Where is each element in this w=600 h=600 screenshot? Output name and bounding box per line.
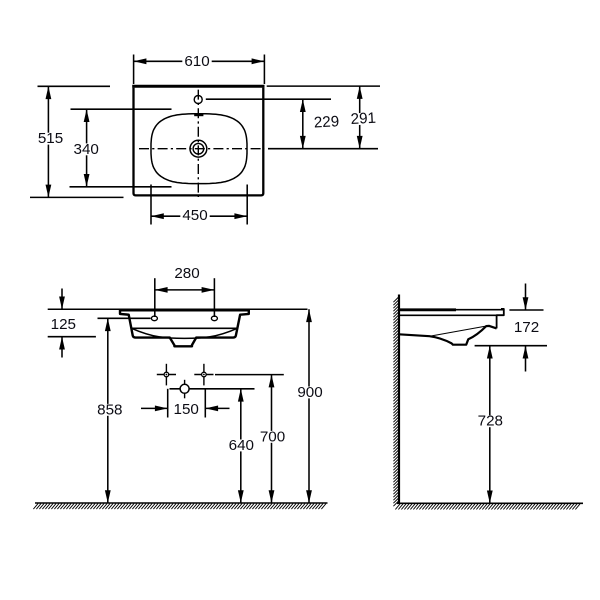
- right tap hole cross marker: [194, 364, 213, 386]
- svg-text:229: 229: [313, 113, 339, 131]
- 450 dimension line: [151, 215, 247, 217]
- 450 left extension line: [150, 185, 152, 225]
- 340 top extension line: [71, 108, 172, 110]
- 340 dimension line: [86, 109, 88, 187]
- 125 upper outside arrow line: [61, 289, 63, 310]
- 229/291 bottom extension line (drain level): [268, 148, 378, 150]
- 610 dimension line: [134, 60, 265, 62]
- side view deck top thick segment: [400, 308, 456, 311]
- front view top reference line: [48, 308, 308, 310]
- label 640: [227, 437, 256, 454]
- svg-text:640: 640: [229, 437, 254, 454]
- svg-text:125: 125: [51, 316, 76, 333]
- 172 top extension line: [509, 309, 543, 311]
- 172 bottom extension line: [475, 345, 547, 347]
- svg-text:291: 291: [350, 110, 376, 128]
- side view bowl underside outline: [399, 326, 497, 345]
- 515 bottom extension line: [30, 196, 124, 198]
- 640 dimension line: [240, 389, 242, 503]
- front view inner bowl bottom curve: [132, 328, 238, 338]
- svg-text:900: 900: [297, 384, 322, 401]
- 229 dimension line: [302, 99, 304, 149]
- 150 left extension line: [167, 389, 169, 418]
- label 900: [295, 384, 324, 401]
- svg-text:700: 700: [260, 428, 285, 445]
- 728 dimension line: [489, 346, 491, 504]
- 640 top extension line: [170, 388, 255, 390]
- 291 dimension line: [359, 86, 361, 149]
- top view basin inner bowl outline: [151, 114, 247, 184]
- 150 left outside arrow line: [141, 407, 168, 409]
- label 700: [258, 428, 287, 445]
- side view ground hatching: [395, 504, 580, 510]
- right fixing hole (front view): [211, 316, 217, 321]
- front view ground line: [35, 502, 328, 504]
- left fixing hole (front view): [151, 316, 157, 321]
- front view inner bowl top line: [132, 327, 238, 329]
- overflow slot mark: [194, 113, 203, 116]
- front view rim top thick edge: [119, 309, 250, 312]
- 125 lower outside arrow line: [61, 337, 63, 358]
- side view deck bottom line: [400, 314, 497, 316]
- svg-text:450: 450: [182, 207, 207, 224]
- front view sink body outline: [120, 309, 249, 346]
- 900 dimension line: [308, 309, 310, 503]
- svg-text:150: 150: [174, 401, 199, 418]
- svg-text:515: 515: [38, 130, 63, 147]
- horizontal centerline (top view): [139, 148, 265, 150]
- 172 lower outside arrow line: [525, 346, 527, 372]
- 229 top extension line (faucet level): [206, 98, 331, 100]
- 700 top extension line: [215, 374, 284, 376]
- side view inner rim edge line: [431, 326, 487, 336]
- svg-text:728: 728: [478, 413, 503, 430]
- top view thick top edge: [132, 85, 264, 88]
- svg-text:280: 280: [174, 265, 199, 282]
- side view ground line: [397, 502, 583, 504]
- 280 dimension line: [155, 289, 215, 291]
- side view front lip outline: [497, 309, 504, 329]
- front view ground hatching: [33, 504, 326, 510]
- left tap hole cross marker: [157, 364, 176, 386]
- center hole marker (front view): [180, 380, 189, 399]
- vertical centerline (top view): [197, 90, 199, 197]
- 515 top extension line: [38, 85, 111, 87]
- label 450: [180, 207, 209, 224]
- 291 top extension line (rim level): [267, 85, 380, 87]
- top view basin outer rectangle: [134, 88, 264, 196]
- 150 right extension line: [204, 389, 206, 418]
- svg-text:172: 172: [514, 319, 539, 336]
- label 728: [476, 413, 505, 430]
- svg-text:340: 340: [74, 141, 99, 158]
- label 280: [172, 265, 201, 282]
- label 172: [512, 319, 541, 336]
- 858 top extension line (hole level): [98, 317, 151, 319]
- label 340: [72, 141, 101, 158]
- drain outer circle: [190, 140, 207, 157]
- 700 dimension line: [271, 375, 273, 503]
- 610 right extension line: [263, 55, 265, 85]
- label 291: [348, 110, 378, 129]
- faucet hole (top view): [194, 96, 202, 104]
- label 125: [49, 316, 78, 333]
- label 515: [36, 130, 65, 147]
- drain inner circle: [193, 143, 204, 154]
- 515 dimension line: [47, 86, 49, 197]
- label 858: [95, 401, 124, 418]
- wall hatching: [393, 297, 398, 506]
- 150 right outside arrow line: [205, 407, 229, 409]
- label 150: [172, 401, 201, 418]
- 610 left extension line: [133, 55, 135, 85]
- svg-text:610: 610: [184, 53, 209, 70]
- 172 upper outside arrow line: [525, 284, 527, 311]
- 280 right extension line: [213, 278, 215, 317]
- label 229: [311, 113, 341, 132]
- 858 dimension line: [107, 318, 109, 503]
- wall line: [398, 295, 400, 504]
- 280 left extension line: [154, 278, 156, 317]
- svg-text:858: 858: [97, 401, 122, 418]
- 125 bottom extension line: [48, 336, 96, 338]
- 340 bottom extension line: [70, 186, 172, 188]
- 450 right extension line: [246, 185, 248, 225]
- label 610: [182, 53, 211, 70]
- side view deck top thin segment: [455, 309, 503, 311]
